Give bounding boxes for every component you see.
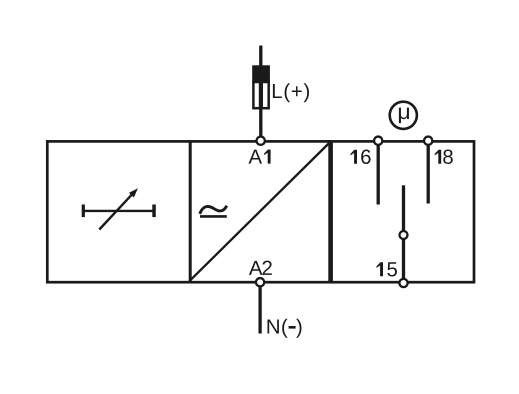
pin label 16 <box>351 150 371 164</box>
fuse <box>252 65 270 108</box>
terminal 18 <box>424 137 432 145</box>
terminal A2 <box>256 278 264 286</box>
diagonal (converter) <box>189 142 330 281</box>
wire: L(+) supply into fuse <box>259 46 262 68</box>
terminal A1 <box>257 137 265 145</box>
rectifier symbol (AC over DC) <box>200 206 227 217</box>
pin label 15 <box>377 262 398 276</box>
relay body outline <box>47 141 474 282</box>
pin label A1 <box>249 150 271 164</box>
section divider (converter / output, thick) <box>328 140 333 283</box>
pin label 18 <box>435 150 453 164</box>
pin label A2 <box>249 261 272 275</box>
section divider (input / converter) <box>189 140 192 283</box>
wire: A2 to N(-) <box>258 287 261 334</box>
wire: contact 18 <box>427 146 430 204</box>
net label L(+) <box>273 83 309 102</box>
wire: pivot to terminal 15 <box>402 239 405 279</box>
junction: contact pivot <box>400 231 408 239</box>
terminal 15 <box>399 279 407 287</box>
wire: common contact arm <box>402 185 405 231</box>
wire: fuse to terminal A1 <box>259 108 262 137</box>
terminal 16 <box>374 137 382 145</box>
net label N(-) <box>268 319 302 338</box>
potentiometer (timing adjustment) <box>82 188 156 229</box>
timer symbol mu <box>390 102 417 129</box>
wire: contact 16 <box>377 146 380 205</box>
